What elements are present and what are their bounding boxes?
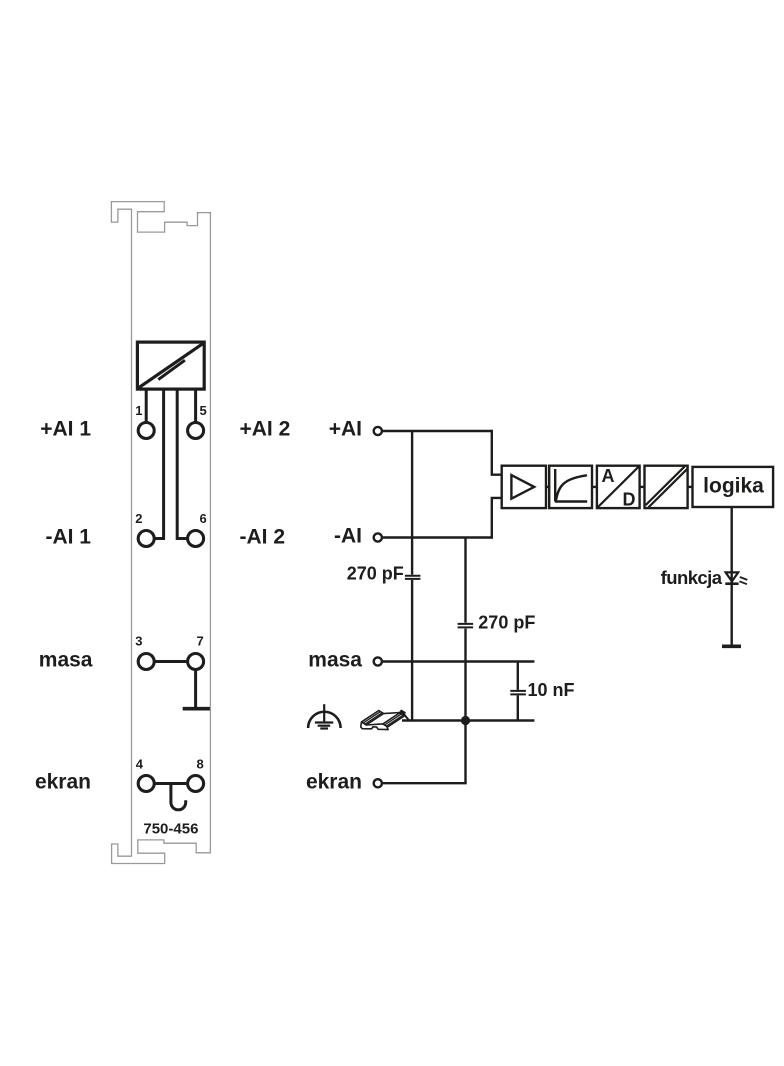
amplifier triangle [511, 475, 534, 499]
logika box [693, 467, 774, 507]
svg-text:270 pF: 270 pF [347, 564, 404, 584]
svg-text:funkcja: funkcja [661, 567, 723, 588]
wire transformer to pin2 [155, 389, 164, 538]
wire -AI [383, 536, 492, 538]
svg-text:-AI 1: -AI 1 [45, 526, 91, 549]
junction dot [461, 716, 470, 725]
wire transformer to pin6 [177, 389, 187, 538]
svg-text:270 pF: 270 pF [478, 613, 535, 633]
pin 2 [135, 511, 154, 547]
wire node B vertical (-AI to ekran) [464, 538, 466, 784]
wire U3-U4 [640, 486, 645, 488]
A/D converter box U3 [597, 466, 640, 508]
terminal ekran [374, 779, 382, 787]
svg-text:-AI: -AI [334, 525, 362, 548]
pin 4 [136, 757, 154, 792]
svg-text:4: 4 [136, 757, 144, 772]
wire node A vertical (+AI to rail) [411, 431, 413, 721]
filter box U2 [549, 466, 592, 508]
svg-text:+AI 1: +AI 1 [40, 418, 91, 441]
pin 7 [188, 634, 204, 670]
isolation diagonals [646, 466, 688, 507]
wire ekran bus pins 4-8 [156, 782, 187, 785]
svg-text:ekran: ekran [306, 770, 362, 793]
DIN rail symbol [361, 710, 409, 729]
svg-text:1: 1 [135, 403, 142, 418]
svg-text:7: 7 [197, 634, 204, 649]
svg-text:10 nF: 10 nF [528, 680, 575, 700]
pin 1 [135, 403, 154, 439]
wire pin5 from transformer [194, 389, 197, 423]
A/D diagonal [598, 466, 639, 507]
earth ground symbol [308, 704, 341, 728]
svg-text:D: D [623, 490, 636, 510]
pin 5 [188, 403, 207, 439]
svg-text:750-456: 750-456 [143, 821, 198, 838]
LED funkcja [725, 572, 747, 584]
svg-text:A: A [602, 466, 615, 486]
wire pin1 from transformer [145, 389, 148, 423]
wire masa [383, 660, 535, 662]
isolation box U4 [645, 466, 688, 508]
pin 8 [188, 757, 204, 792]
svg-text:masa: masa [39, 649, 93, 672]
wire masa bus pins 3-7 [156, 660, 187, 663]
svg-text:3: 3 [135, 634, 142, 649]
wire fork lower [492, 498, 502, 539]
wire fork upper [492, 430, 502, 475]
svg-text:-AI 2: -AI 2 [240, 526, 286, 549]
capacitor C2 270 pF [458, 624, 474, 628]
ekran hook [171, 784, 186, 810]
capacitor C1 270 pF [405, 576, 421, 579]
terminal -AI [374, 533, 382, 541]
svg-text:masa: masa [308, 649, 362, 672]
pin 3 [135, 634, 154, 670]
wire +AI [383, 430, 492, 432]
ground bar (LED) [722, 644, 741, 648]
wire pin7 down [194, 671, 197, 707]
wire U1-U2 [546, 486, 549, 488]
svg-text:logika: logika [703, 475, 764, 498]
pin 6 [188, 511, 207, 547]
svg-text:5: 5 [200, 403, 207, 418]
capacitor C3 10 nF [510, 691, 526, 695]
svg-text:2: 2 [135, 511, 142, 526]
svg-text:ekran: ekran [35, 771, 91, 794]
filter curve [555, 469, 587, 502]
terminal masa [374, 657, 382, 665]
svg-text:6: 6 [200, 511, 207, 526]
module housing outline 750-456 [111, 202, 210, 864]
masa termination bar [183, 707, 210, 711]
wire ground rail [402, 719, 534, 721]
terminal +AI [374, 427, 382, 435]
transformer T1 box [137, 342, 204, 389]
wire ekran [383, 782, 467, 784]
amplifier box U1 [502, 466, 546, 508]
wire capacitor C3 branch [517, 662, 519, 721]
wire logika to LED [731, 507, 733, 645]
svg-text:+AI 2: +AI 2 [240, 418, 291, 441]
svg-text:8: 8 [197, 757, 204, 772]
wire U2-U3 [592, 486, 597, 488]
svg-text:+AI: +AI [329, 418, 362, 441]
wire U4-logika [688, 486, 693, 488]
